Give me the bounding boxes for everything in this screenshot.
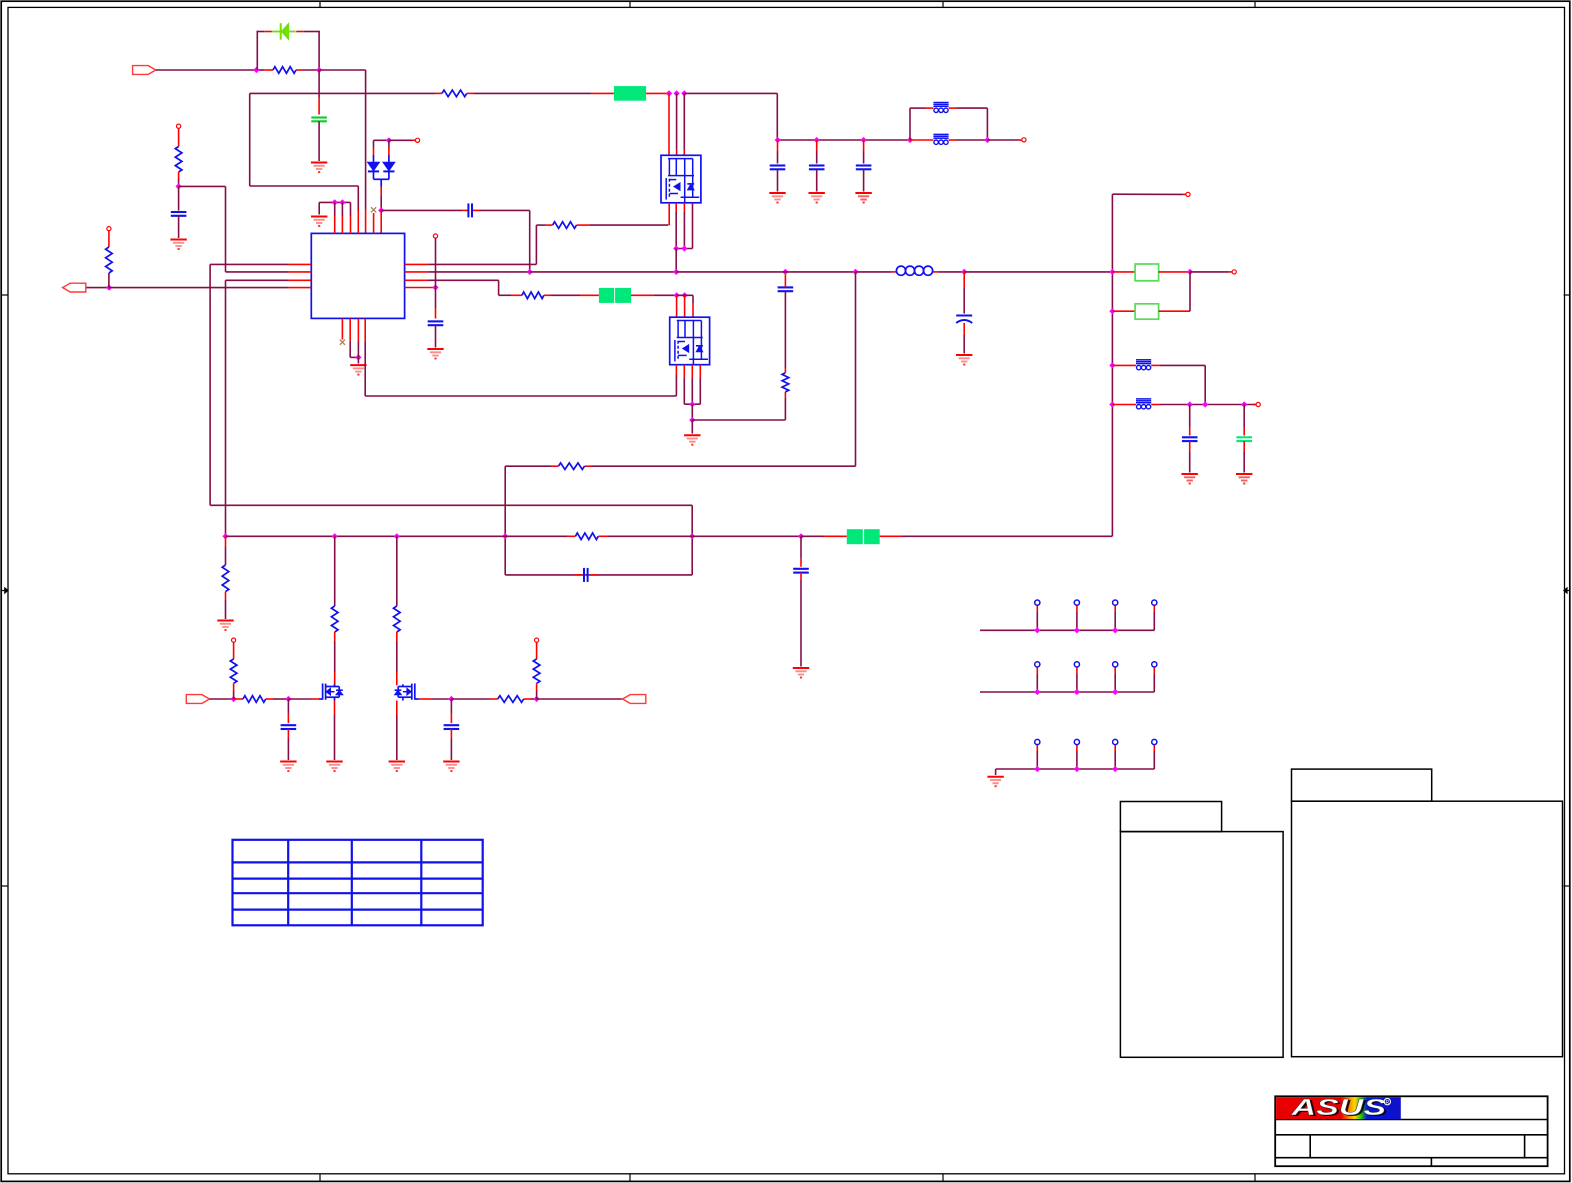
- wire y420 to R7: [692, 419, 785, 421]
- diode node pin to IC (red): [380, 210, 382, 233]
- ground below C9: [769, 192, 785, 194]
- transformer T1 coil B: [1136, 398, 1151, 400]
- coil B right wire: [1151, 404, 1160, 406]
- connector arrow left mid: [63, 283, 86, 292]
- Q2 bottom pins 2-4: [683, 365, 685, 378]
- junction at 964: [961, 269, 967, 275]
- junction y404: [689, 401, 695, 407]
- resistor R2 stubs: [435, 92, 442, 94]
- transistor M1 (N-MOSFET): [319, 698, 323, 700]
- header row C bus: [996, 768, 1155, 770]
- resistor R6 stubs: [511, 294, 522, 296]
- wire PLED row: [156, 69, 257, 71]
- svg-text:ASUS: ASUS: [1290, 1095, 1386, 1120]
- junction at 288,699: [285, 696, 291, 702]
- fuse F3a (green): [847, 529, 863, 544]
- wire Q1 output down to bus: [675, 249, 677, 272]
- capacitor C12 (vertical plates): [583, 568, 585, 582]
- choke T2 upper loop: [909, 108, 911, 140]
- resistor R3: [553, 222, 577, 229]
- junction bus/855: [852, 269, 858, 275]
- junctions cap bank: [775, 137, 781, 143]
- fuse F3b (green): [864, 529, 880, 544]
- header B pin 4: [1153, 673, 1155, 692]
- wire bus y536: [226, 535, 506, 537]
- junction TH1 out: [1187, 269, 1193, 275]
- ground below U1: [350, 364, 366, 366]
- transistor Q1 (dual MOSFET block): [661, 155, 701, 203]
- wire to output terminal: [1190, 271, 1229, 273]
- resistor R13: [498, 696, 524, 703]
- wire vertical 225 upper: [225, 186, 227, 272]
- junction at 451,699: [448, 696, 454, 702]
- inductor L1: [896, 266, 905, 275]
- header B pin 2: [1076, 673, 1078, 692]
- LED loop left wire: [256, 31, 258, 70]
- wire to R13: [451, 698, 490, 700]
- resistor R8 stubs: [551, 465, 558, 467]
- wire main bus row2: [530, 271, 677, 273]
- wire loop y466: [505, 465, 551, 467]
- wire vertical 210 down: [209, 264, 211, 505]
- thermistor TH1 (green outline): [1135, 264, 1159, 281]
- capacitor C13 branch: [800, 536, 802, 559]
- transformer T1 coil B stub: [1112, 404, 1136, 406]
- wire R1 to node: [303, 69, 320, 71]
- wire row y225 resistor R3 right stub: [584, 224, 591, 226]
- M2 gate wire: [419, 698, 433, 700]
- U1 bottom pin 4 long wire: [364, 318, 366, 342]
- junctions y248.5: [673, 245, 679, 251]
- resistor R12 stubs: [234, 698, 243, 700]
- capacitor C2 stubs: [462, 209, 469, 211]
- junction 1112/404: [1109, 401, 1115, 407]
- wire node to cap C2: [381, 209, 461, 211]
- junctions on output row y404: [1187, 401, 1193, 407]
- capacitor C5: [778, 286, 794, 288]
- resistor R9: [575, 533, 598, 540]
- terminal above node: [433, 234, 437, 238]
- Q1 bottom pin1 to resistor row: [668, 203, 670, 225]
- junction choke out: [984, 137, 990, 143]
- wire segment y248.5: [676, 248, 692, 250]
- junctions at Q2 inputs: [673, 292, 679, 298]
- junction at 178,186: [175, 183, 181, 189]
- thermistor TH2 (green outline): [1135, 304, 1159, 319]
- connector PLED_IN (top-left): [133, 66, 156, 75]
- wire Q1 top pin 1 (red): [668, 93, 670, 155]
- M2 source to ground: [396, 701, 398, 716]
- U1 top gnd pin group wire: [319, 201, 350, 203]
- U1 top pin from loop B: [357, 186, 359, 210]
- header A pin 4: [1153, 612, 1155, 631]
- capacitor C12 stubs: [575, 574, 582, 576]
- capacitor C15 branch: [450, 699, 452, 713]
- wire 1112 top to terminal: [1112, 193, 1183, 195]
- ground below C4: [427, 348, 443, 350]
- capacitor C6 branch (polarized): [963, 272, 965, 288]
- junction at 536,699: [533, 696, 539, 702]
- wire C2 to corner 529: [480, 209, 530, 211]
- ground below C14: [280, 761, 296, 763]
- header row C ground: [995, 769, 997, 775]
- U1 row1 left wire: [288, 263, 311, 265]
- wire R9 to 692: [608, 535, 693, 537]
- frame zone ticks left: [1, 294, 8, 296]
- ground at U1 top: [311, 216, 327, 218]
- wire C3 to ground: [178, 216, 180, 238]
- thermistor TH2 stub left: [1112, 310, 1135, 312]
- terminal above R11: [232, 638, 236, 642]
- R14 chain: [536, 642, 538, 659]
- transistor Q2 (dual MOSFET block): [670, 317, 710, 365]
- capacitor C10 branch: [816, 140, 818, 151]
- wire bus to 1112: [964, 271, 1112, 273]
- terminal above R14: [535, 638, 539, 642]
- choke T2 winding upper: [933, 102, 948, 104]
- wire Q1 top pin 2: [676, 93, 678, 149]
- resistor R13 stubs: [490, 698, 498, 700]
- ground below C10: [809, 192, 825, 194]
- wire R8 to 855: [592, 465, 856, 467]
- capacitor C4: [428, 320, 444, 322]
- ground below C1: [311, 162, 327, 164]
- choke T2 winding lower: [933, 133, 948, 135]
- header C pin 3: [1114, 751, 1116, 769]
- U1 row1 right: [405, 263, 429, 265]
- junction bottom gnd: [355, 354, 361, 360]
- junction at 233,699: [230, 696, 236, 702]
- wire to connector right: [537, 698, 623, 700]
- wire C4 to ground: [435, 325, 437, 347]
- wire down to gnd node: [691, 404, 693, 420]
- wire segment y404: [684, 403, 700, 405]
- diode D3 anode wire: [388, 140, 390, 147]
- wire L1 to node: [938, 271, 964, 273]
- wire loop A to 225: [179, 185, 226, 187]
- U1 bottom pin 3: [357, 318, 359, 342]
- capacitor C1 (green): [311, 116, 327, 118]
- wire row y225 left corner to row1: [536, 224, 545, 226]
- resistor R9 stubs: [568, 535, 576, 537]
- R4 wire: [108, 231, 110, 247]
- wire R12 to junction 288: [273, 698, 288, 700]
- junction 692/536: [689, 533, 695, 539]
- junction at 319,70: [316, 67, 322, 73]
- ground below C3: [170, 239, 186, 241]
- ground below C8: [1236, 473, 1252, 475]
- U1 row3 left wire: [288, 279, 311, 281]
- resistor R5 from terminal: [177, 124, 181, 128]
- LED D1 pin red left: [264, 31, 272, 33]
- wire vertical 365 down to IC pin: [365, 70, 367, 209]
- resistor R4: [106, 247, 113, 273]
- TH1 right stub: [1159, 271, 1190, 273]
- wire choke to terminal: [987, 139, 1018, 141]
- fuse F1 (green): [614, 86, 646, 101]
- ground below C6: [956, 354, 972, 356]
- wire 529 down to bus row2: [529, 210, 531, 272]
- header A pin 1: [1036, 612, 1038, 631]
- ground below C11: [855, 192, 871, 194]
- capacitor C2 (series, vertical plates): [467, 203, 469, 217]
- R11 chain: [233, 642, 235, 659]
- transformer T1 coil A: [1136, 359, 1151, 361]
- wire 801 to fuse: [801, 535, 824, 537]
- header B pin 3: [1114, 673, 1116, 692]
- choke T2 winding lower stub: [910, 139, 933, 141]
- wire bus y93 left corner: [249, 93, 251, 186]
- terminal output y404: [1254, 404, 1257, 406]
- connector arrow bottom-right: [623, 695, 646, 704]
- diode D2: [368, 162, 380, 171]
- frame center arrow right: [1564, 590, 1570, 592]
- terminal circle diode rail: [415, 138, 419, 142]
- wire loop y505: [210, 504, 692, 506]
- junction at 801: [798, 533, 804, 539]
- wire 855 vertical from bus: [855, 272, 857, 466]
- coil A right wire: [1151, 364, 1160, 366]
- junctions drain risers: [332, 533, 338, 539]
- junction bus/C5: [782, 269, 788, 275]
- wire C5 to bus: [784, 272, 786, 288]
- wire y536 to fuse pair: [692, 535, 801, 537]
- F3 right stub: [880, 535, 902, 537]
- header C pin 1: [1036, 751, 1038, 769]
- U1 row2 left wire: [288, 271, 311, 273]
- diode common cathode rail (blue): [373, 172, 375, 180]
- fuse F1 right stub: [646, 92, 669, 94]
- wire vertical 1112: [1111, 194, 1113, 536]
- title block dividers: [1309, 1135, 1311, 1158]
- ASUS logo text: [1290, 1095, 1389, 1122]
- diode D3: [383, 162, 395, 171]
- transformer T1 coil A stub: [1112, 364, 1136, 366]
- frame zone ticks top: [319, 1, 321, 7]
- resistor R1 stubs: [264, 69, 273, 71]
- U1 top pin stubs: [334, 202, 336, 216]
- junction 505/536: [502, 533, 508, 539]
- header C pin 2: [1076, 751, 1078, 769]
- junction 1112/311: [1109, 308, 1115, 314]
- connector arrow bottom-left: [186, 695, 209, 704]
- TH2 right stub: [1159, 310, 1190, 312]
- frame zone ticks right: [1564, 294, 1570, 296]
- header row B bus: [980, 691, 1154, 693]
- ground below C15: [443, 761, 459, 763]
- wire cap C1 branch: [318, 70, 320, 97]
- junction 225/536: [222, 533, 228, 539]
- junction at 381,210: [378, 207, 384, 213]
- revision table (blue): [233, 840, 483, 926]
- wire 692 vertical: [691, 505, 693, 575]
- wire F3 to 1112 corner: [902, 535, 1112, 537]
- resistor R12: [243, 696, 266, 703]
- terminal top output: [1022, 138, 1026, 142]
- junction 1112/bus: [1109, 269, 1115, 275]
- junction row2/529: [527, 269, 533, 275]
- wire Q1 top pin 3: [683, 93, 685, 149]
- junction bus/Q1: [673, 269, 679, 275]
- wire 505 vertical: [504, 466, 506, 575]
- wire loop y575: [505, 574, 692, 576]
- R10 below junction 225/536: [225, 536, 227, 547]
- junction 1112/365: [1109, 362, 1115, 368]
- header C pin 4: [1153, 751, 1155, 769]
- IC U1 (controller): [311, 233, 404, 318]
- notes box left body: [1120, 832, 1283, 1058]
- notes box right body: [1292, 801, 1563, 1056]
- transistor M2 (N-MOSFET): [415, 698, 419, 700]
- wire to M1 gate: [288, 698, 311, 700]
- junction at 256,70: [253, 67, 259, 73]
- wire node to corner 365: [319, 69, 366, 71]
- M1 source to ground: [334, 701, 336, 716]
- wire vertical 225 lower: [225, 280, 227, 536]
- header B pin 1: [1036, 673, 1038, 692]
- frame center arrow left: [1, 590, 8, 592]
- capacitor C7 branch: [1189, 405, 1191, 428]
- ground below R10: [217, 620, 233, 622]
- drain riser M1: [334, 536, 336, 606]
- capacitor C9 branch: [777, 140, 779, 151]
- Q2 bottom pin1 wire: [675, 365, 677, 375]
- ground below C7: [1182, 473, 1198, 475]
- resistor R1: [273, 67, 296, 74]
- ground below Q2: [684, 434, 700, 436]
- U1 bottom pin X: [341, 318, 343, 339]
- R4 to junction: [108, 273, 110, 288]
- wire 178 down to cap C3: [178, 186, 180, 210]
- resistor R2: [442, 90, 467, 97]
- resistor R8: [558, 463, 584, 470]
- svg-text:R: R: [1385, 1100, 1389, 1106]
- drain riser M2: [396, 536, 398, 606]
- capacitor C8 branch (green): [1243, 405, 1245, 428]
- no-connect X pin: [371, 207, 376, 212]
- wire C1 to ground: [318, 121, 320, 161]
- notes box left tab: [1120, 802, 1221, 832]
- title block outer: [1275, 1096, 1547, 1166]
- Q2 top pin wires: [676, 295, 678, 317]
- wire TH2 up to node: [1189, 272, 1191, 311]
- capacitor C11 branch: [863, 140, 865, 151]
- U1 row4 long wire from connector: [86, 287, 109, 289]
- LED D1 pin red right: [296, 31, 304, 33]
- junctions top pin group: [332, 199, 338, 205]
- resistor R7 chain: [784, 398, 786, 420]
- terminal output right: [1232, 270, 1236, 274]
- capacitor C14 branch: [287, 699, 289, 713]
- title block row lines: [1275, 1119, 1547, 1121]
- wire 777 down to cap bus: [776, 93, 778, 140]
- header row A bus: [980, 629, 1154, 631]
- resistor R6: [522, 292, 544, 299]
- wire loop B segment: [250, 185, 359, 187]
- terminal top right: [1186, 192, 1190, 196]
- frame zone ticks bottom: [319, 1174, 321, 1182]
- wire to junction 233: [210, 698, 234, 700]
- LED loop right wire: [304, 31, 319, 33]
- junction at 692,420: [689, 417, 695, 423]
- header A pin 3: [1114, 612, 1116, 631]
- fuse F2a (green): [599, 288, 614, 303]
- wire diode top rail: [374, 139, 389, 141]
- U1 row4 right to terminal node: [405, 287, 436, 289]
- wire y536 mid segment: [505, 535, 568, 537]
- Q1 bottom pins 2-4 to junction y248.5: [675, 203, 677, 212]
- ASUS logo gradient box: [1276, 1097, 1401, 1119]
- wire R6 to fuse pair: [551, 294, 580, 296]
- junction diode rail: [386, 137, 392, 143]
- header A pin 2: [1076, 612, 1078, 631]
- capacitor C3: [171, 211, 187, 213]
- R3 stubs: [545, 224, 553, 226]
- ground below C13: [793, 667, 809, 669]
- wire terminal down: [435, 238, 437, 287]
- inductor L1 stubs: [892, 271, 897, 273]
- wire rail to terminal: [389, 139, 412, 141]
- wire node down to cap C4: [435, 288, 437, 309]
- U1 row3 right: [405, 279, 429, 281]
- terminal above R4: [107, 227, 111, 231]
- thermistor TH1 stub left: [1112, 271, 1135, 273]
- wire fuse row to corner 777: [684, 92, 777, 94]
- wire gnd node down: [691, 420, 693, 434]
- wire R13 to junction 536: [531, 698, 537, 700]
- wire R2 to fuse: [474, 92, 592, 94]
- wire cap-bank bus y140: [777, 139, 910, 141]
- notes box right tab: [1292, 769, 1432, 801]
- wire diode cathode down: [380, 187, 382, 197]
- U1 bottom pin 2: [349, 318, 351, 342]
- LED D1 (green): [272, 31, 280, 33]
- U1 row2 right: [405, 271, 429, 273]
- junction triple at fuse output: [666, 90, 672, 96]
- F2 right stub: [631, 294, 653, 296]
- fuse F2b (green): [615, 288, 631, 303]
- diode D2 anode wire: [373, 140, 375, 147]
